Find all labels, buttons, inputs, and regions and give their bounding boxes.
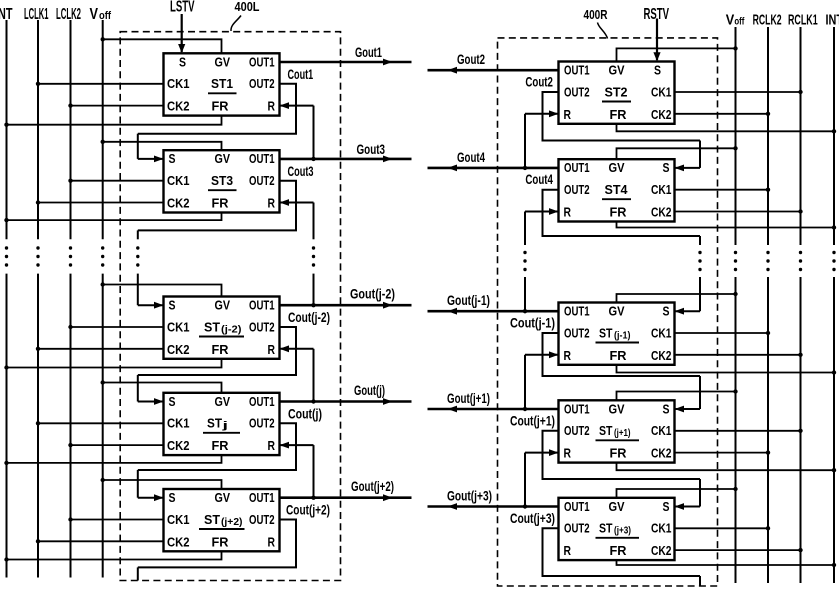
svg-text:400R: 400R xyxy=(584,7,608,22)
dashed boundary box 400L xyxy=(120,32,340,581)
svg-text:FR: FR xyxy=(212,100,229,114)
wire R reset of STj from next gate line xyxy=(280,442,314,498)
wire OUT2 carry of ST(j-2) xyxy=(138,327,296,375)
junction CK2 of ST4 xyxy=(798,209,802,213)
wire Gout(j+2) gate output line with arrow xyxy=(280,494,412,501)
wire carry of ST(j+1) down to S of next stage xyxy=(675,479,701,510)
junction GV of ST2 on Voff bus xyxy=(733,46,737,50)
wire carry Cout1 down to S of ST3 xyxy=(138,134,164,163)
wire carry of ST(j-2) down to S of next stage xyxy=(138,375,164,405)
svg-text:R: R xyxy=(564,206,572,220)
wire OUT2 carry of ST(j-1) xyxy=(543,333,701,376)
wire CK1 of ST(j-2) to clock bus xyxy=(71,326,164,328)
wire OUT2 carry of ST3 xyxy=(138,181,296,231)
wire LCLK1 bus xyxy=(37,20,39,239)
junction R of ST(j-1) on gate line xyxy=(523,407,527,411)
wire CK2 of ST(j-2) to clock bus xyxy=(38,348,164,350)
junction FR of ST4 on INT bus xyxy=(832,225,836,229)
junction GV of ST(j+2) on Voff bus xyxy=(101,478,105,482)
svg-text:ST: ST xyxy=(599,521,613,536)
shift register ST4 (right stage block) xyxy=(559,159,675,221)
wire OUT2 carry of ST(j+3) xyxy=(543,528,701,576)
junction CK2 of ST(j+1) xyxy=(766,450,770,454)
svg-text:ST: ST xyxy=(207,416,222,431)
svg-text:(j+3): (j+3) xyxy=(614,526,631,537)
svg-text:OUT1: OUT1 xyxy=(564,500,590,514)
svg-text:CK1: CK1 xyxy=(167,77,190,91)
svg-text:Gout(j+3): Gout(j+3) xyxy=(447,489,492,504)
svg-text:ST: ST xyxy=(204,319,220,334)
svg-text:Cout(j+1): Cout(j+1) xyxy=(510,413,555,428)
junction FR of ST(j-2) on INT bus xyxy=(4,365,8,369)
svg-text:R: R xyxy=(268,100,276,114)
block label 400L xyxy=(231,0,260,31)
svg-text:Gout(j+1): Gout(j+1) xyxy=(447,391,490,406)
junction CK1 of ST(j-2) xyxy=(68,325,72,329)
wire CK1 of ST(j-1) to clock bus xyxy=(675,332,769,334)
svg-text:CK1: CK1 xyxy=(651,85,672,99)
svg-text:FR: FR xyxy=(212,343,229,357)
svg-text:R: R xyxy=(564,349,572,363)
svg-text:S: S xyxy=(169,491,176,505)
svg-text:400L: 400L xyxy=(235,0,260,14)
junction FR of ST(j-1) on INT bus xyxy=(832,370,836,374)
svg-text:INT: INT xyxy=(826,12,839,29)
svg-text:Cout(j-1): Cout(j-1) xyxy=(510,316,555,331)
svg-text:OUT1: OUT1 xyxy=(564,402,590,416)
wire Voff bus right xyxy=(735,27,737,245)
wire CK2 of ST3 to clock bus xyxy=(38,202,164,204)
svg-text:ST: ST xyxy=(599,423,613,438)
junction GV of ST4 on Voff bus xyxy=(733,146,737,150)
svg-text:CK2: CK2 xyxy=(651,349,672,363)
junction GV of ST(j-2) on Voff bus xyxy=(101,282,105,286)
wire FR of ST(j-1) to INT bus xyxy=(617,365,835,373)
wire INT bus left xyxy=(6,20,8,239)
svg-text:CK1: CK1 xyxy=(167,417,190,431)
svg-text:Cout4: Cout4 xyxy=(525,172,553,187)
svg-text:V: V xyxy=(726,12,735,29)
svg-text:j: j xyxy=(221,421,229,432)
svg-text:GV: GV xyxy=(609,64,626,78)
junction CK1 of ST2 xyxy=(798,90,802,94)
junction GV of ST3 on Voff bus xyxy=(101,140,105,144)
wire GV of ST2 to Voff bus xyxy=(617,48,736,61)
junction CK2 of ST2 xyxy=(766,112,770,116)
wire OUT2 carry of ST(j+2) xyxy=(138,520,296,568)
shift register ST(j+2) (left stage block) xyxy=(164,489,280,551)
svg-text:OUT2: OUT2 xyxy=(564,183,590,197)
wire GV of ST(j+2) to Voff bus xyxy=(103,480,222,489)
junction R of ST2 on gate line xyxy=(523,166,527,170)
block label 400R xyxy=(584,7,608,39)
svg-text:GV: GV xyxy=(609,402,626,416)
junction CK2 of ST(j-2) xyxy=(36,347,40,351)
svg-text:Gout(j-1): Gout(j-1) xyxy=(447,293,490,308)
svg-text:LCLK1: LCLK1 xyxy=(24,6,49,23)
svg-text:OUT1: OUT1 xyxy=(564,64,590,78)
wire carry of ST(j-1) down to S of next stage xyxy=(675,376,701,412)
svg-text:S: S xyxy=(654,64,661,78)
svg-text:OUT2: OUT2 xyxy=(564,85,590,99)
wire R reset of ST1 from next gate line xyxy=(280,102,314,159)
svg-text:FR: FR xyxy=(212,535,229,549)
wire carry of ST(j+2) down to box edge xyxy=(137,567,139,580)
wire RCLK2 bus xyxy=(767,27,769,245)
wire GV of ST(j+1) to Voff bus xyxy=(617,392,736,401)
wire carry Cout4 down through ellipsis to S of ST(j-1) xyxy=(675,236,702,315)
svg-text:LCLK2: LCLK2 xyxy=(56,6,81,23)
svg-text:GV: GV xyxy=(215,299,231,313)
wire GV of ST(j+3) to Voff bus xyxy=(617,489,736,498)
svg-text:RCLK2: RCLK2 xyxy=(753,12,782,29)
wire GV of ST(j-1) to Voff bus xyxy=(617,294,736,303)
svg-text:CK2: CK2 xyxy=(651,447,672,461)
svg-text:OUT2: OUT2 xyxy=(564,424,590,438)
svg-text:Cout(j+2): Cout(j+2) xyxy=(286,503,330,518)
svg-text:S: S xyxy=(169,152,176,166)
svg-text:Cout3: Cout3 xyxy=(288,164,314,179)
wire Gout(j-2) gate output line with arrow xyxy=(280,302,412,309)
wire CK1 of ST(j+1) to clock bus xyxy=(675,430,801,432)
wire GV of ST1 to Voff bus xyxy=(103,39,222,53)
junction FR of STj on INT bus xyxy=(4,461,8,465)
svg-text:OUT2: OUT2 xyxy=(564,326,590,340)
svg-text:S: S xyxy=(169,299,176,313)
wire Gout(j-1) gate output line with arrow xyxy=(428,308,559,315)
junction CK2 of ST(j-1) xyxy=(798,353,802,357)
svg-text:OUT1: OUT1 xyxy=(249,491,275,505)
svg-text:Cout(j-2): Cout(j-2) xyxy=(288,310,330,325)
svg-text:S: S xyxy=(663,402,670,416)
svg-text:OUT1: OUT1 xyxy=(564,305,590,319)
junction GV of ST1 on Voff bus xyxy=(101,37,105,41)
shift register ST2 (right stage block) xyxy=(559,62,675,124)
svg-text:OUT2: OUT2 xyxy=(249,174,275,188)
svg-text:R: R xyxy=(564,108,572,122)
net label Voff (left) xyxy=(90,6,112,23)
svg-text:OUT1: OUT1 xyxy=(249,152,275,166)
svg-text:CK2: CK2 xyxy=(651,108,672,122)
svg-text:R: R xyxy=(564,447,572,461)
junction CK2 of ST3 xyxy=(36,200,40,204)
svg-text:FR: FR xyxy=(212,439,229,453)
svg-text:Cout2: Cout2 xyxy=(525,75,553,90)
wire CK1 of ST1 to clock bus xyxy=(38,83,164,85)
junction R of ST1 on gate line xyxy=(311,157,315,161)
svg-text:S: S xyxy=(663,161,670,175)
shift register ST(j-1) (right stage block) xyxy=(559,303,675,365)
svg-text:S: S xyxy=(169,395,176,409)
wire carry Cout3 down through ellipsis to S of ST(j-2) xyxy=(136,230,163,308)
junction R of ST(j-2) on gate line xyxy=(311,399,315,403)
wire CK2 of ST2 to clock bus xyxy=(675,113,769,115)
wire Gout4 gate output line with arrow xyxy=(428,165,559,172)
svg-text:S: S xyxy=(663,500,670,514)
svg-text:Gout2: Gout2 xyxy=(457,52,485,67)
net label Voff (right) xyxy=(726,12,745,29)
shift register STj (left stage block) xyxy=(164,393,280,455)
svg-text:OUT2: OUT2 xyxy=(564,522,590,536)
svg-text:FR: FR xyxy=(610,544,627,558)
svg-text:CK1: CK1 xyxy=(651,424,672,438)
svg-text:GV: GV xyxy=(609,500,626,514)
wire OUT2 carry of STj xyxy=(138,423,296,470)
wire GV of ST(j-2) to Voff bus xyxy=(103,285,222,297)
wire CK1 of ST4 to clock bus xyxy=(675,189,769,191)
wire R reset of ST2 from next gate line xyxy=(525,110,559,167)
junction CK1 of ST1 xyxy=(36,82,40,86)
wire CK1 of ST(j+2) to clock bus xyxy=(71,519,164,521)
svg-text:S: S xyxy=(663,305,670,319)
svg-text:(j-2): (j-2) xyxy=(221,324,242,335)
junction GV of ST(j+1) on Voff bus xyxy=(733,389,737,393)
wire FR of ST4 to INT bus xyxy=(617,222,835,228)
junction CK2 of STj xyxy=(68,443,72,447)
wire carry Cout2 down to S of ST4 xyxy=(675,141,701,172)
svg-text:CK1: CK1 xyxy=(651,326,672,340)
svg-text:Cout1: Cout1 xyxy=(288,67,314,82)
wire LCLK2 bus xyxy=(70,20,72,239)
shift register ST(j+1) (right stage block) xyxy=(559,400,675,462)
junction FR of ST(j+2) on INT bus xyxy=(4,557,8,561)
svg-text:Gout(j+2): Gout(j+2) xyxy=(351,479,394,494)
wire FR of STj to INT bus xyxy=(7,455,222,463)
svg-text:R: R xyxy=(268,535,276,549)
svg-text:OUT2: OUT2 xyxy=(249,417,275,431)
svg-text:GV: GV xyxy=(609,305,626,319)
svg-text:Gout1: Gout1 xyxy=(355,45,382,60)
svg-text:(j-1): (j-1) xyxy=(614,330,631,341)
svg-text:CK2: CK2 xyxy=(167,535,190,549)
svg-text:Gout3: Gout3 xyxy=(357,142,386,157)
svg-text:off: off xyxy=(734,16,744,28)
wire CK2 of ST(j+1) to clock bus xyxy=(675,452,769,454)
svg-text:R: R xyxy=(564,544,572,558)
wire CK2 of ST(j-1) to clock bus xyxy=(675,354,801,356)
svg-text:CK2: CK2 xyxy=(651,206,672,220)
wire Voff bus left xyxy=(102,20,104,239)
junction R of ST(j+1) on gate line xyxy=(523,504,527,508)
wire GV of ST3 to Voff bus xyxy=(103,142,222,150)
wire FR of ST1 to INT bus xyxy=(7,116,222,125)
junction FR of ST3 on INT bus xyxy=(4,218,8,222)
wire CK1 of ST3 to clock bus xyxy=(71,180,164,182)
svg-text:FR: FR xyxy=(212,197,229,211)
svg-text:R: R xyxy=(268,343,276,357)
svg-text:OUT1: OUT1 xyxy=(249,395,275,409)
svg-text:CK2: CK2 xyxy=(167,343,190,357)
wire R reset of ST(j-1) from next gate line xyxy=(525,351,559,409)
wire GV of ST4 to Voff bus xyxy=(617,148,736,159)
svg-text:OUT2: OUT2 xyxy=(249,320,275,334)
svg-text:CK1: CK1 xyxy=(651,522,672,536)
wire carry of ST(j+3) down to box edge xyxy=(699,576,701,586)
junction GV of STj on Voff bus xyxy=(101,380,105,384)
wire R reset of ST4 from next gate line xyxy=(523,208,558,311)
wire Gout1 gate output line with arrow xyxy=(280,59,412,66)
svg-text:CK1: CK1 xyxy=(167,513,190,527)
svg-text:OUT1: OUT1 xyxy=(564,161,590,175)
svg-text:ST: ST xyxy=(204,512,220,527)
junction CK2 of ST(j+2) xyxy=(36,539,40,543)
junction FR of ST(j+3) on INT bus xyxy=(832,563,836,567)
junction CK2 of ST1 xyxy=(68,103,72,107)
wire CK1 of ST(j+3) to clock bus xyxy=(675,527,769,529)
junction CK1 of ST(j+2) xyxy=(68,517,72,521)
junction CK1 of ST(j+1) xyxy=(798,429,802,433)
svg-text:ST2: ST2 xyxy=(605,84,628,99)
svg-text:CK2: CK2 xyxy=(651,544,672,558)
svg-text:CK1: CK1 xyxy=(167,320,190,334)
junction CK1 of ST(j-1) xyxy=(766,331,770,335)
wire GV of STj to Voff bus xyxy=(103,383,222,393)
junction FR of ST2 on INT bus xyxy=(832,129,836,133)
wire OUT2 carry of ST(j+1) xyxy=(543,431,701,479)
wire FR of ST(j-2) to INT bus xyxy=(7,359,222,368)
svg-text:Cout(j): Cout(j) xyxy=(288,407,322,422)
svg-text:FR: FR xyxy=(610,349,627,363)
wire FR of ST3 to INT bus xyxy=(7,213,222,221)
svg-text:ST1: ST1 xyxy=(211,76,233,91)
shift register ST1 (left stage block) xyxy=(164,53,280,115)
svg-text:(j+2): (j+2) xyxy=(221,517,243,528)
wire CK2 of ST(j+2) to clock bus xyxy=(38,540,164,542)
svg-text:LSTV: LSTV xyxy=(170,0,195,16)
wire CK1 of STj to clock bus xyxy=(38,422,164,424)
wire CK2 of ST1 to clock bus xyxy=(71,105,164,107)
wire OUT2 carry of ST1 xyxy=(138,84,296,134)
svg-text:GV: GV xyxy=(215,152,231,166)
wire CK2 of ST(j+3) to clock bus xyxy=(675,549,801,551)
svg-text:R: R xyxy=(268,439,276,453)
junction R of ST3 on gate line xyxy=(311,303,315,307)
junction CK2 of ST(j+3) xyxy=(798,548,802,552)
svg-text:CK1: CK1 xyxy=(651,183,672,197)
svg-text:FR: FR xyxy=(610,447,627,461)
wire Gout(j+1) gate output line with arrow xyxy=(428,406,559,413)
svg-text:Gout4: Gout4 xyxy=(457,150,485,165)
junction CK1 of STj xyxy=(36,421,40,425)
junction FR of ST(j+1) on INT bus xyxy=(832,468,836,472)
svg-text:CK2: CK2 xyxy=(167,100,190,114)
wire RCLK1 bus xyxy=(800,27,802,245)
wire FR of ST(j+1) to INT bus xyxy=(617,463,835,471)
junction FR of ST1 on INT bus xyxy=(4,123,8,127)
wire carry of STj down to S of next stage xyxy=(138,470,164,501)
svg-text:off: off xyxy=(99,10,111,22)
svg-text:Gout(j): Gout(j) xyxy=(354,383,385,398)
svg-text:R: R xyxy=(268,197,276,211)
junction GV of ST(j-1) on Voff bus xyxy=(733,292,737,296)
svg-text:GV: GV xyxy=(215,55,231,69)
shift register ST(j-2) (left stage block) xyxy=(164,297,280,359)
svg-text:OUT2: OUT2 xyxy=(249,77,275,91)
svg-text:S: S xyxy=(179,55,186,69)
wire R reset of ST3 from next gate line xyxy=(280,199,316,305)
svg-text:CK2: CK2 xyxy=(167,439,190,453)
wire RSTV input with arrow into S of ST2 xyxy=(653,19,660,62)
wire FR of ST(j+3) to INT bus xyxy=(617,560,835,565)
wire Gout3 gate output line with arrow xyxy=(280,156,412,163)
junction R of STj on gate line xyxy=(311,496,315,500)
wire Gout(j+3) gate output line with arrow xyxy=(428,503,559,510)
svg-text:GV: GV xyxy=(215,395,231,409)
svg-text:RCLK1: RCLK1 xyxy=(788,12,818,29)
svg-text:ST4: ST4 xyxy=(605,182,629,197)
junction GV of ST(j+3) on Voff bus xyxy=(733,487,737,491)
svg-text:Gout(j-2): Gout(j-2) xyxy=(350,287,395,302)
svg-text:Cout(j+3): Cout(j+3) xyxy=(510,511,555,526)
wire CK1 of ST2 to clock bus xyxy=(675,91,801,93)
wire R reset of ST(j+1) from next gate line xyxy=(525,449,559,506)
wire FR of ST2 to INT bus xyxy=(617,124,835,132)
wire FR of ST(j+2) to INT bus xyxy=(7,551,222,559)
svg-text:CK1: CK1 xyxy=(167,174,190,188)
wire OUT2 carry of ST4 xyxy=(543,190,701,236)
junction CK1 of ST3 xyxy=(68,179,72,183)
junction R of ST4 on gate line xyxy=(523,309,527,313)
dashed boundary box 400R xyxy=(498,38,718,586)
svg-text:OUT2: OUT2 xyxy=(249,513,275,527)
wire LSTV input with arrow into S of ST1 xyxy=(178,14,185,53)
svg-text:OUT1: OUT1 xyxy=(249,299,275,313)
wire CK2 of ST4 to clock bus xyxy=(675,211,801,213)
wire INT bus right xyxy=(833,27,835,245)
shift register ST3 (left stage block) xyxy=(164,150,280,212)
svg-text:FR: FR xyxy=(610,206,627,220)
wire R reset of ST(j-2) from next gate line xyxy=(280,345,314,401)
svg-text:V: V xyxy=(90,6,99,23)
wire Gout(j) gate output line with arrow xyxy=(280,398,412,405)
svg-text:ST3: ST3 xyxy=(211,173,233,188)
svg-text:FR: FR xyxy=(610,108,627,122)
wire OUT2 carry of ST2 xyxy=(543,92,701,141)
junction CK1 of ST(j+3) xyxy=(766,526,770,530)
junction CK1 of ST4 xyxy=(766,188,770,192)
wire Gout2 gate output line with arrow xyxy=(428,67,559,74)
svg-text:(j+1): (j+1) xyxy=(614,428,631,439)
svg-text:ST: ST xyxy=(599,325,613,340)
svg-text:OUT1: OUT1 xyxy=(249,55,275,69)
wire CK2 of STj to clock bus xyxy=(71,444,164,446)
svg-text:CK2: CK2 xyxy=(167,197,190,211)
shift register ST(j+3) (right stage block) xyxy=(559,498,675,560)
svg-text:GV: GV xyxy=(609,161,626,175)
svg-text:GV: GV xyxy=(215,491,231,505)
